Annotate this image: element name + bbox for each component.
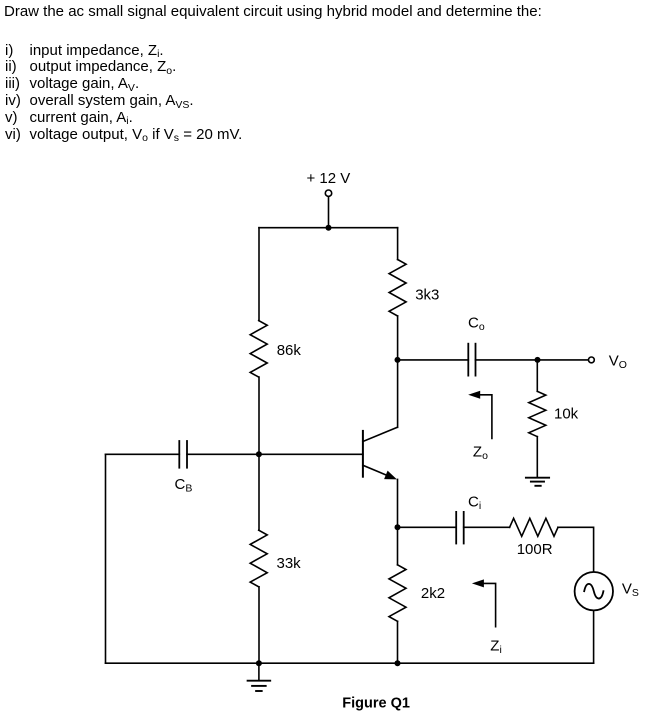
wire Ci to 100R bbox=[464, 526, 510, 528]
svg-text:2k2: 2k2 bbox=[421, 585, 445, 602]
wire 86k to base node bbox=[258, 377, 260, 454]
resistor 33k bbox=[250, 530, 267, 587]
resistor 10k bbox=[529, 391, 546, 436]
wire right branch upper bbox=[397, 228, 399, 260]
resistor 3k3 bbox=[389, 260, 406, 317]
capacitor CB bbox=[179, 441, 187, 468]
wire left branch upper bbox=[258, 228, 260, 321]
resistor 2k2 bbox=[389, 565, 406, 622]
svg-text:3k3: 3k3 bbox=[415, 287, 439, 304]
terminal Vo open circle bbox=[589, 357, 595, 363]
svg-text:Co: Co bbox=[468, 315, 485, 334]
transistor Q1 bbox=[363, 427, 397, 479]
node supply junction dot bbox=[326, 225, 332, 231]
svg-text:CB: CB bbox=[175, 476, 193, 495]
wire CB to base node bbox=[187, 453, 259, 455]
capacitor Ci bbox=[456, 512, 464, 544]
wire 3k3 to collector bbox=[397, 316, 399, 427]
supply terminal +12V open circle bbox=[325, 190, 331, 196]
wire left loop vertical bbox=[105, 454, 107, 663]
wire base node to 33k bbox=[258, 454, 260, 530]
arrow Zi bbox=[472, 579, 496, 626]
svg-text:10k: 10k bbox=[554, 406, 579, 423]
node collector junction dot bbox=[395, 357, 401, 363]
wire Co to output node bbox=[476, 359, 538, 361]
wire 2k2 top bbox=[397, 527, 399, 565]
capacitor Co bbox=[468, 344, 475, 376]
wire 100R to source bbox=[558, 527, 594, 572]
arrow Zo bbox=[468, 391, 492, 439]
svg-text:33k: 33k bbox=[277, 555, 302, 572]
resistor 100R bbox=[510, 518, 558, 536]
wire left loop to CB bbox=[106, 453, 180, 455]
wire source to bottom rail bbox=[593, 610, 595, 663]
wire collector to Co bbox=[398, 359, 469, 361]
ground bottom bbox=[248, 681, 271, 691]
wire output stub bbox=[538, 359, 589, 361]
svg-text:VO: VO bbox=[609, 352, 627, 371]
node base junction dot bbox=[256, 451, 262, 457]
svg-text:Zo: Zo bbox=[473, 444, 488, 463]
wire emitter vertical bbox=[397, 479, 399, 527]
svg-text:VS: VS bbox=[622, 580, 639, 599]
wire output node to 10k bbox=[536, 360, 538, 391]
wire bottom rail bbox=[106, 662, 594, 664]
wire 33k to bottom rail bbox=[258, 587, 260, 663]
wire top rail bbox=[259, 227, 398, 229]
ground under 10k bbox=[526, 478, 549, 486]
svg-text:Zi: Zi bbox=[490, 637, 502, 656]
wire base bbox=[259, 453, 363, 455]
resistor 86k bbox=[250, 321, 267, 378]
source Vs bbox=[575, 572, 613, 610]
svg-text:Ci: Ci bbox=[468, 494, 481, 513]
node output junction dot bbox=[535, 357, 541, 363]
node bottom emitter junction dot bbox=[395, 660, 401, 666]
svg-text:Figure Q1: Figure Q1 bbox=[342, 696, 410, 712]
svg-text:86k: 86k bbox=[277, 342, 302, 359]
node bottom ground junction dot bbox=[256, 660, 262, 666]
svg-text:100R: 100R bbox=[517, 541, 553, 558]
svg-text:+ 12 V: + 12 V bbox=[307, 170, 351, 187]
wire 10k to ground bbox=[536, 437, 538, 478]
node emitter junction dot bbox=[395, 524, 401, 530]
wire 2k2 to bottom rail bbox=[397, 621, 399, 663]
wire supply stub bbox=[328, 197, 330, 228]
wire ground stub bbox=[258, 663, 260, 680]
wire emitter to Ci bbox=[398, 526, 457, 528]
